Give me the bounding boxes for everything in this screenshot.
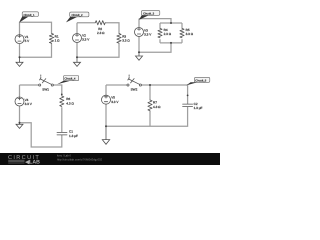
svg-text:◀LAB: ◀LAB <box>24 159 40 165</box>
svg-text:Circuit_3: Circuit_3 <box>143 12 154 16</box>
svg-text:SW2: SW2 <box>131 88 138 92</box>
svg-text:Circuit_4: Circuit_4 <box>64 77 75 81</box>
svg-text:4.3 Ω: 4.3 Ω <box>66 101 74 105</box>
svg-text:1.3 μF: 1.3 μF <box>69 134 78 138</box>
svg-text:4.3 Ω: 4.3 Ω <box>153 105 161 109</box>
svg-text:SW1: SW1 <box>42 88 49 92</box>
svg-text:2.3 Ω: 2.3 Ω <box>164 32 172 36</box>
svg-text:3.3 V: 3.3 V <box>82 38 90 42</box>
svg-text:3.3 V: 3.3 V <box>111 100 119 104</box>
svg-text:3.3 V: 3.3 V <box>25 102 33 106</box>
svg-text:3.3 Ω: 3.3 Ω <box>122 38 130 42</box>
svg-text:Circuit_5: Circuit_5 <box>195 78 206 82</box>
svg-text:hltp://circuitlab.com/c/766854: hltp://circuitlab.com/c/7668545dgz555 <box>57 159 103 162</box>
svg-text:Circuit_2: Circuit_2 <box>72 13 83 17</box>
svg-text:krnc / Lab 0: krnc / Lab 0 <box>57 155 72 158</box>
svg-text:1.3 μF: 1.3 μF <box>194 106 203 110</box>
svg-text:Circuit_1: Circuit_1 <box>24 13 35 17</box>
svg-text:3.3 Ω: 3.3 Ω <box>186 32 194 36</box>
svg-text:1 Ω: 1 Ω <box>55 39 61 43</box>
svg-text:2.3 Ω: 2.3 Ω <box>97 31 105 35</box>
svg-text:3.3 V: 3.3 V <box>144 33 152 37</box>
